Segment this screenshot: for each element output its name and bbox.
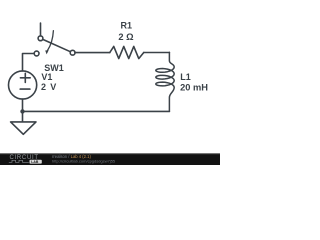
- switch SW1 actuation arc: [47, 31, 53, 51]
- svg-text:R1: R1: [121, 21, 133, 31]
- logo LAB box: [30, 160, 42, 164]
- resistor R1 zigzag: [110, 46, 144, 58]
- voltage source V1 body: [9, 71, 37, 99]
- footer bar: [0, 153, 220, 165]
- inductor L1 coil: [156, 52, 174, 111]
- bottom wire / ground net: [23, 110, 170, 112]
- switch SW1 blade: [43, 39, 71, 51]
- svg-text:LAB: LAB: [31, 160, 39, 164]
- logo waveform: [9, 160, 29, 162]
- svg-text:V1: V1: [41, 72, 52, 82]
- junction dot ground net: [20, 109, 24, 113]
- switch SW1 left terminal: [34, 51, 39, 56]
- wire from SW1 right terminal to R1: [75, 52, 110, 54]
- svg-text:L1: L1: [180, 72, 191, 82]
- wire from V1 bottom to ground: [22, 99, 24, 122]
- switch SW1 right terminal: [70, 50, 75, 55]
- wire from R1 to top-right corner: [144, 52, 170, 54]
- svg-text:20 mH: 20 mH: [180, 82, 208, 92]
- svg-text:http://circuitlab.com/cpgdsdgs: http://circuitlab.com/cpgdsdgsw7j55: [52, 159, 116, 164]
- ground symbol: [11, 122, 36, 134]
- wire top stub of SW1 throw: [40, 23, 42, 36]
- switch SW1 top terminal: [38, 36, 43, 41]
- switch arc arrowhead: [45, 50, 49, 54]
- svg-text:2 V: 2 V: [41, 82, 56, 92]
- svg-text:2 Ω: 2 Ω: [118, 32, 134, 42]
- wire from SW1 left terminal to V1 top: [23, 54, 35, 71]
- V1 plus sign: [20, 73, 30, 82]
- V1 minus sign: [20, 88, 30, 90]
